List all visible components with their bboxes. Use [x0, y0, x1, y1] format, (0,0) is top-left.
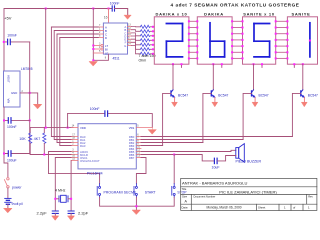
IC U2 4511 body: [103, 23, 127, 54]
svg-text:Title: Title: [182, 187, 187, 191]
4511 output pins a-g with numbers: [128, 27, 132, 46]
svg-text:2.2pF: 2.2pF: [37, 211, 48, 216]
wire RB2 bus to Q2: [141, 142, 203, 144]
svg-text:RB7: RB7: [129, 156, 135, 160]
PIC pin VSS wire to ground: [136, 127, 152, 129]
svg-text:power: power: [12, 185, 22, 189]
node dot rail x93.3: [92, 8, 94, 10]
wire Q3 emitter to ground: [254, 97, 256, 102]
svg-text:LM7805: LM7805: [21, 67, 33, 71]
svg-text:10uF: 10uF: [212, 166, 220, 170]
resistor Rb 150ohm: [140, 30, 150, 33]
svg-text:VIN: VIN: [7, 99, 11, 104]
svg-text:100nF: 100nF: [7, 125, 17, 129]
wire Q1 base: [163, 93, 171, 145]
switch SW power: [7, 178, 9, 180]
svg-text:VSS: VSS: [129, 126, 135, 130]
wire RA2 to 4511 C: [57, 34, 98, 143]
wire Re to disp: [150, 44, 154, 46]
svg-text:GND: GND: [11, 91, 17, 95]
wire collector DS4 to Q4: [302, 64, 304, 90]
button SW1 PROGRAMI SECME: [97, 184, 100, 198]
wire Rg to disp: [150, 53, 154, 55]
capacitor 100nF PIC decoupling: [68, 114, 153, 128]
wire Q2 emitter to ground: [214, 97, 216, 102]
resistor Rf 150ohm: [140, 48, 150, 51]
wire RB1 bus to Q3: [141, 139, 243, 141]
PIC right pins RB0-RB7: [136, 137, 141, 158]
svg-text:Monday, March 06, 2000: Monday, March 06, 2000: [206, 205, 241, 209]
display DS2 box: [197, 17, 232, 64]
wire RA1 to 4511 B: [54, 31, 98, 140]
ground under 4511: [89, 62, 97, 66]
display DS2 digit 6: [210, 23, 225, 57]
wire cap row 1: [4, 119, 30, 121]
display DS1 box: [154, 17, 189, 64]
4511 input pin B: [98, 28, 107, 33]
display DS4 digit 1: [309, 23, 311, 57]
ladder rungs gap3: [276, 21, 288, 58]
wire Q4 base: [292, 93, 300, 136]
wire Rd to disp: [150, 39, 154, 41]
resistor Rd 150ohm: [140, 39, 150, 42]
wire STOP button riser: [173, 155, 175, 184]
wire Q4 emitter to ground: [303, 97, 305, 102]
svg-text:SANIYE: SANIYE: [291, 12, 310, 17]
resistor Rg 150ohm: [140, 52, 150, 55]
svg-text:100nF: 100nF: [7, 34, 17, 38]
svg-text:4 adet 7 SEGMAN ORTAK KATOTLU: 4 adet 7 SEGMAN ORTAK KATOTLU GOSTERGE: [171, 3, 300, 8]
4511 pin LT bubble: [93, 43, 108, 48]
wire RA3 to 4511 D: [60, 38, 99, 146]
resistor R1 10K: [29, 128, 31, 133]
4511 pin BI bubble: [93, 46, 108, 51]
display DS3 digit 5: [254, 24, 270, 57]
button SW3 STOP: [172, 184, 175, 198]
svg-text:VOUT: VOUT: [7, 75, 11, 83]
svg-text:DAKIKA x 10: DAKIKA x 10: [155, 12, 187, 17]
ground buttons: [132, 210, 140, 214]
wire RA4 to button1: [49, 152, 100, 184]
ground regulator: [34, 104, 42, 108]
display bottom pins and dangling stubs: [182, 64, 295, 67]
wire 9V input net below regulator: [4, 107, 8, 177]
resistor Ra 150ohm: [140, 25, 150, 28]
wire +5V top rail: [4, 9, 112, 72]
wire Q1 emitter to ground: [174, 97, 176, 102]
wire 4511 gnd/LT column: [92, 9, 94, 61]
svg-text:100nF: 100nF: [90, 107, 100, 111]
svg-text:BC547: BC547: [218, 94, 228, 98]
svg-text:100nF: 100nF: [110, 2, 120, 6]
regulator U3 LM7805 body: [4, 71, 21, 107]
PIC left pins RA4 MCLR OSC: [72, 152, 78, 161]
wire Q2 base: [203, 93, 211, 142]
transistor Q4 BC547: [301, 90, 305, 98]
svg-text:SANIYE x 10: SANIYE x 10: [243, 12, 275, 17]
wire Ra to disp: [150, 26, 154, 28]
svg-text:of: of: [293, 205, 296, 209]
svg-text:2.2pF: 2.2pF: [78, 211, 89, 216]
svg-text:9volt pil: 9volt pil: [12, 202, 23, 206]
wire RB7 to START: [136, 158, 146, 184]
node dot BI: [92, 48, 94, 50]
wire 4511 d to R jog: [132, 36, 141, 40]
ground PIC VSS: [148, 128, 156, 134]
node dot rail x108.5: [108, 8, 110, 10]
wire RB6 to cap: [141, 155, 214, 161]
node dot rail x45.7: [45, 8, 47, 10]
node dot STOP junction: [173, 154, 175, 156]
display DS3 box: [243, 17, 276, 64]
capacitor 10uF plates: [214, 158, 217, 163]
wire +5V drop to resistor tie: [45, 9, 47, 128]
transistor Q2 BC547: [211, 90, 215, 98]
button SW2 START: [134, 184, 137, 198]
wire collector DS3 to Q3: [253, 64, 255, 90]
title block frame: [181, 178, 317, 210]
wire switch to battery: [7, 188, 9, 198]
wire collector DS1 to Q1: [172, 64, 174, 90]
wire resistor top tie to PIC VDD: [30, 127, 73, 129]
svg-text:7 adet 150: 7 adet 150: [139, 54, 156, 58]
wire buttons ground bus: [100, 197, 175, 210]
svg-text:Document Number: Document Number: [194, 195, 216, 199]
svg-text:16: 16: [104, 16, 108, 20]
svg-text:Size: Size: [182, 195, 188, 199]
wire RA0 to 4511 A: [51, 27, 98, 137]
transistor Q3 BC547: [252, 90, 256, 98]
battery BT1 9V: [5, 198, 11, 204]
svg-text:D: D: [105, 36, 107, 40]
buzzer LS1 piezo: [236, 144, 245, 163]
svg-text:VDD: VDD: [80, 126, 86, 130]
ground top-right: [124, 15, 131, 19]
IC U1 PIC16F84 body: [78, 124, 136, 169]
svg-text:G: G: [124, 44, 126, 48]
svg-text:PIC ILE ZAMANLAYICI (TIMER): PIC ILE ZAMANLAYICI (TIMER): [219, 189, 277, 194]
svg-text:Date:: Date:: [182, 205, 189, 209]
4511 input pin A: [98, 24, 107, 29]
svg-text:OSC2/CLKOUT: OSC2/CLKOUT: [80, 159, 100, 163]
wire OSC1 down to crystal: [55, 158, 71, 212]
node dot LT: [92, 45, 94, 47]
capacitor 100uF plates: [8, 151, 11, 156]
wire OSC2 down to crystal: [70, 161, 73, 212]
resistor Rc 150ohm: [140, 34, 150, 37]
4511 pin LE: [93, 50, 108, 55]
svg-text:4 MHz: 4 MHz: [55, 188, 66, 192]
wire 4511 g to R jog: [132, 46, 141, 54]
svg-text:DAKIKA: DAKIKA: [204, 12, 224, 17]
PIC left pins RA0-RA3: [72, 137, 78, 146]
svg-text:Ohm: Ohm: [139, 59, 147, 63]
wire 4511 f to R jog: [132, 42, 141, 49]
wire Rf to disp: [150, 48, 154, 50]
wire 4511 VDD drop pin16: [108, 9, 110, 24]
svg-text:4511: 4511: [113, 56, 120, 60]
wire cap to buzzer bottom: [218, 156, 236, 161]
capacitor 22pF right: [68, 211, 74, 213]
wire Rc to disp: [150, 35, 154, 37]
wire collector DS2 to Q2: [212, 64, 214, 90]
4511 input pin D: [98, 35, 107, 40]
svg-text:ANTRAK - BARBAROS ASUROGLU: ANTRAK - BARBAROS ASUROGLU: [182, 180, 247, 185]
wire 4511 GND pin8: [93, 54, 108, 60]
ladder rungs gap2: [232, 21, 242, 58]
wire battery to ground: [7, 204, 9, 208]
svg-text:PIEZO BUZZER: PIEZO BUZZER: [236, 159, 262, 163]
svg-text:100uF: 100uF: [7, 158, 17, 162]
4511 input pin C: [98, 31, 107, 36]
ladder rungs gap1: [189, 21, 197, 58]
resistor Re 150ohm: [140, 43, 150, 46]
capacitor C top-right 100nF plates: [112, 6, 114, 11]
svg-text:BC547: BC547: [178, 94, 188, 98]
capacitor 22pF left: [52, 211, 58, 213]
wire 4511 b to R jog: [132, 30, 141, 32]
wire regulator GND to ground: [20, 93, 38, 104]
wire RB3 bus to Q1: [141, 145, 163, 147]
wire Rb to disp: [150, 30, 154, 32]
wire Q3 base: [243, 93, 251, 139]
wire GND net vertical: [29, 42, 31, 154]
display DS4 box: [287, 17, 317, 64]
display DS1 digit 2: [166, 24, 182, 57]
wire cap row 2: [4, 153, 30, 155]
wire 4511 c to R jog: [132, 33, 141, 36]
svg-text:START: START: [145, 190, 156, 194]
wire RB5 to buzzer top: [141, 150, 236, 151]
svg-text:RA3: RA3: [80, 144, 86, 148]
svg-text:Sheet: Sheet: [258, 205, 266, 209]
ground battery: [4, 208, 12, 212]
svg-text:BC547: BC547: [308, 94, 318, 98]
svg-text:4K7: 4K7: [34, 137, 40, 141]
svg-text:BC547: BC547: [259, 94, 269, 98]
wire RB0 bus to Q4: [141, 136, 292, 138]
svg-text:PROGRAMI SECME: PROGRAMI SECME: [104, 190, 137, 194]
wire cap to ground: [115, 9, 128, 15]
capacitor 100nF regulator output: [4, 41, 30, 43]
wire 4511 a to R jog: [132, 26, 141, 28]
wire 4511 e to R jog: [132, 39, 141, 45]
node dot gnd 4511: [92, 59, 94, 61]
resistor R2 4K7: [43, 128, 45, 133]
svg-text:PIC16F84: PIC16F84: [87, 171, 103, 175]
svg-text:+5V: +5V: [4, 15, 12, 20]
capacitor 100nF input plates: [8, 118, 11, 123]
transistor Q1 BC547: [171, 90, 175, 98]
PIC pin VDD: [72, 127, 78, 129]
svg-text:10K: 10K: [19, 137, 26, 141]
svg-text:Rev: Rev: [308, 195, 313, 199]
wire MCLR bus: [30, 154, 71, 156]
